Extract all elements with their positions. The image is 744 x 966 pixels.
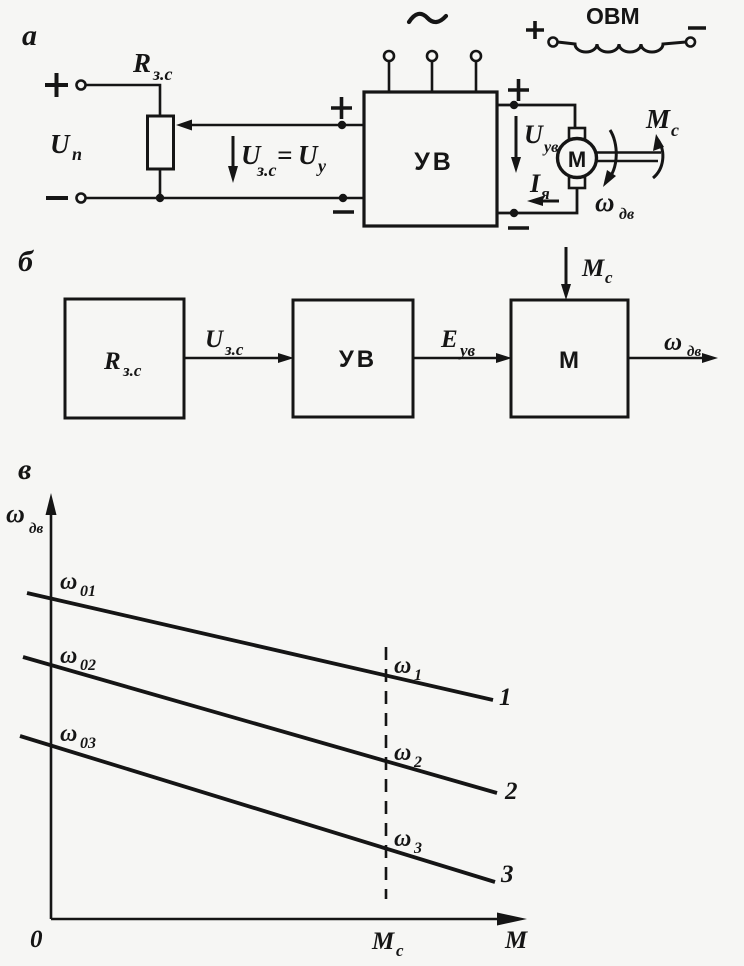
AC input terminal 1 xyxy=(384,51,394,92)
svg-text:М: М xyxy=(568,147,586,172)
svg-text:М: М xyxy=(559,347,579,374)
svg-text:М: М xyxy=(504,927,528,954)
label U з.с = U у xyxy=(241,140,327,180)
label Uп xyxy=(50,129,82,164)
svg-text:E: E xyxy=(440,326,458,353)
svg-text:R: R xyxy=(132,48,151,78)
svg-text:б: б xyxy=(18,245,34,278)
block УВ (б) xyxy=(293,300,413,417)
svg-text:дв: дв xyxy=(687,344,701,360)
wire motor bottom to УВ - output xyxy=(497,188,577,213)
plus sign of ОВМ xyxy=(526,21,544,39)
dashed line at Мс xyxy=(385,647,388,899)
wire from + terminal to resistor top xyxy=(86,85,161,116)
svg-text:п: п xyxy=(72,144,82,164)
junction dot under resistor xyxy=(156,194,164,202)
svg-text:ω: ω xyxy=(394,826,411,852)
wire resistor bottom xyxy=(159,169,162,198)
svg-text:03: 03 xyxy=(80,735,96,752)
wiper arrow wire xyxy=(176,120,342,131)
minus sign at УВ output xyxy=(508,226,529,230)
svg-text:U: U xyxy=(524,120,544,149)
arrow УВ to М xyxy=(413,353,512,363)
svg-text:УВ: УВ xyxy=(339,346,377,373)
svg-text:ω: ω xyxy=(664,329,682,356)
svg-text:1: 1 xyxy=(499,684,512,711)
label ω01 xyxy=(60,569,96,600)
minus sign of ОВМ xyxy=(688,26,706,30)
block УВ xyxy=(364,92,497,226)
wire junction to УВ xyxy=(342,124,364,127)
junction dot + output xyxy=(510,101,518,109)
Mс torque arc arrow xyxy=(653,134,664,178)
bottom wire to УВ xyxy=(86,197,365,200)
label ω дв (б) xyxy=(664,329,701,360)
svg-text:U: U xyxy=(298,140,319,170)
svg-text:ω: ω xyxy=(60,643,77,669)
arrow Мс into block М xyxy=(561,247,571,300)
svg-text:в: в xyxy=(18,453,31,486)
label ω3 xyxy=(394,826,422,857)
svg-text:з.с: з.с xyxy=(152,64,173,84)
svg-text:2: 2 xyxy=(413,754,422,771)
svg-text:3: 3 xyxy=(413,840,422,857)
ОВМ right terminal xyxy=(686,38,695,47)
label ω02 xyxy=(60,643,96,674)
svg-text:3: 3 xyxy=(500,861,514,888)
motor M bottom brush xyxy=(569,177,585,188)
svg-text:дв: дв xyxy=(619,206,634,223)
svg-text:ω: ω xyxy=(6,499,25,528)
svg-text:ω: ω xyxy=(60,569,77,595)
junction dot at + input of УВ xyxy=(338,121,346,129)
svg-text:ω: ω xyxy=(595,187,615,217)
block R з.с xyxy=(65,299,184,418)
plus sign at УВ output xyxy=(508,79,529,101)
characteristic line 2 xyxy=(23,657,497,793)
ω дв rotation arc arrow xyxy=(603,130,616,187)
svg-text:с: с xyxy=(671,120,679,140)
svg-text:М: М xyxy=(581,255,605,282)
field winding ОВМ coil xyxy=(558,42,687,52)
svg-text:0: 0 xyxy=(30,926,43,953)
arrow of Uув xyxy=(511,116,521,173)
svg-text:а: а xyxy=(22,19,37,52)
svg-text:з.с: з.с xyxy=(224,340,244,359)
y-axis xyxy=(46,493,57,919)
terminal circle + of Uп xyxy=(77,81,86,90)
label Uув xyxy=(524,120,558,156)
svg-text:с: с xyxy=(396,941,404,960)
svg-text:=: = xyxy=(277,140,292,170)
svg-text:01: 01 xyxy=(80,583,96,600)
label ω2 xyxy=(394,740,422,771)
svg-text:М: М xyxy=(645,104,671,134)
AC tilde symbol xyxy=(409,14,446,22)
AC input terminal 2 xyxy=(427,51,437,92)
svg-text:ув: ув xyxy=(542,139,558,156)
y-axis label ω дв xyxy=(6,499,43,537)
svg-text:ω: ω xyxy=(394,653,411,679)
label ω03 xyxy=(60,721,96,752)
AC input terminal 3 xyxy=(471,51,481,92)
svg-text:02: 02 xyxy=(80,657,96,674)
junction dot - output xyxy=(510,209,518,217)
svg-text:ω: ω xyxy=(60,721,77,747)
svg-text:з.с: з.с xyxy=(256,160,277,180)
x-axis label Мс xyxy=(371,928,404,960)
label ω дв (rotation) xyxy=(595,187,634,223)
motor M xyxy=(558,139,597,178)
label ω1 xyxy=(394,653,422,684)
motor shaft xyxy=(596,153,661,162)
arrow of Iя xyxy=(527,196,559,206)
output arrow ω дв xyxy=(628,353,718,363)
svg-text:у: у xyxy=(316,156,327,176)
motor M top brush xyxy=(569,128,585,139)
label Iя xyxy=(529,169,550,203)
svg-text:ОВМ: ОВМ xyxy=(586,3,640,29)
svg-text:I: I xyxy=(529,169,541,198)
characteristic line 3 xyxy=(20,736,495,882)
plus sign at УВ input xyxy=(331,97,352,119)
svg-text:1: 1 xyxy=(414,667,422,684)
label R з.с xyxy=(132,48,173,84)
svg-text:УВ: УВ xyxy=(414,148,454,176)
block М (б) xyxy=(511,300,628,417)
svg-text:с: с xyxy=(605,268,613,287)
x-axis xyxy=(51,913,527,926)
svg-text:2: 2 xyxy=(504,778,518,805)
arrow R з.с to УВ xyxy=(184,353,294,363)
label E ув xyxy=(440,326,476,360)
potentiometer R з.с body xyxy=(148,116,174,169)
minus sign of supply Uп xyxy=(46,196,68,200)
svg-text:ув: ув xyxy=(458,341,476,360)
svg-text:R: R xyxy=(103,348,121,375)
minus sign at УВ input xyxy=(333,210,354,214)
terminal circle - of Uп xyxy=(77,194,86,203)
svg-text:М: М xyxy=(371,928,395,955)
junction dot at - input of УВ xyxy=(339,194,347,202)
label Mс (load torque) xyxy=(645,104,679,140)
svg-text:U: U xyxy=(50,129,71,159)
plus sign of supply Uп xyxy=(45,73,68,97)
wire УВ + output to motor xyxy=(497,105,575,128)
svg-text:дв: дв xyxy=(29,521,43,537)
characteristic line 1 xyxy=(27,593,493,700)
arrow of U з.с xyxy=(228,136,238,183)
label U з.с (б) xyxy=(205,326,244,359)
ОВМ left terminal xyxy=(549,38,558,47)
svg-text:ω: ω xyxy=(394,740,411,766)
label Мс (б) xyxy=(581,255,613,287)
svg-text:з.с: з.с xyxy=(122,361,142,380)
svg-text:U: U xyxy=(205,326,225,353)
